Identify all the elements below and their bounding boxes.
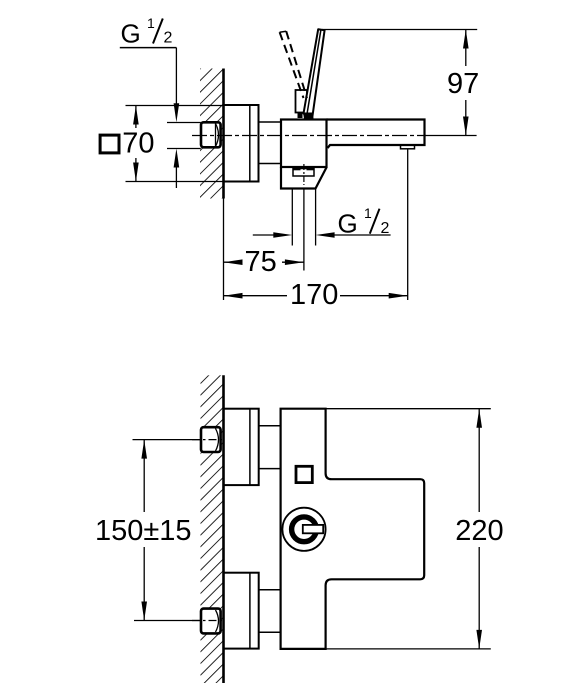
nipple dim left shaft (253, 234, 280, 236)
logo crossbar (303, 525, 323, 533)
dimension 70: bottom extension line (126, 181, 224, 183)
svg-text:1: 1 (364, 205, 372, 221)
label G1/2 middle (338, 205, 390, 239)
dimension 170: arrow left (224, 293, 243, 299)
nut chamfer line (215, 124, 217, 147)
label G1/2 top-left (121, 15, 173, 49)
svg-text:220: 220 (455, 515, 503, 547)
svg-text:170: 170 (290, 279, 338, 311)
flange inner edge line (249, 105, 251, 182)
lower nut centerline (192, 620, 225, 622)
small square detail on body (296, 466, 312, 482)
G1/2 leader line (328, 234, 391, 236)
svg-text:97: 97 (447, 68, 479, 100)
upper pipe bottom line (259, 468, 281, 470)
nipple centerline (303, 164, 305, 185)
dimension 75: arrow right (285, 259, 304, 265)
outlet centerline extension down (303, 189, 305, 271)
dimension 75: arrow left (224, 259, 243, 265)
mixer body (side view) (281, 120, 327, 168)
svg-text:G: G (121, 19, 141, 49)
dimension 70: square symbol (100, 135, 119, 153)
dimension 220: upper dim segment (478, 409, 480, 512)
nipple left extension line (291, 189, 293, 246)
lever handle dashed alternate position left edge (280, 32, 304, 98)
dimension 97: arrow down (463, 117, 469, 136)
lever handle post (296, 90, 308, 113)
upper pipe top line (259, 425, 281, 427)
dimension 150±15: top extension line (133, 439, 202, 441)
svg-text:2: 2 (381, 220, 390, 237)
aerator (401, 145, 415, 149)
dimension 70: top extension line (126, 105, 224, 107)
wall extension line down to 170 dimension (223, 199, 225, 301)
lower pipe bottom line (259, 631, 281, 633)
thread top extension line (167, 122, 201, 124)
dimension 220: lower dim segment (478, 547, 480, 649)
wall hatching top view (200, 69, 223, 199)
connection pipe bottom line (259, 163, 282, 165)
dimension 150±15: upper dim segment (143, 440, 145, 512)
connection pipe top line (259, 121, 282, 123)
svg-text:1: 1 (147, 15, 155, 31)
logo outer circle (282, 508, 325, 551)
dimension 70: arrow down (133, 163, 139, 182)
dimension 97: arrow up (463, 30, 469, 49)
dimension 75: right dim segment (282, 261, 304, 263)
dimension 70: arrow up (133, 106, 139, 125)
dimension 97: top extension line at lever tip (322, 29, 477, 31)
svg-text:G: G (338, 209, 358, 239)
thread lower arrow up (174, 149, 180, 168)
dimension 150±15: arrow up (141, 440, 147, 459)
upper flange inner line (249, 409, 251, 485)
dimension 150±15: arrow down (141, 602, 147, 621)
logo thick ring (292, 517, 317, 542)
svg-text:75: 75 (245, 246, 277, 278)
dimension 220: bottom extension line (326, 648, 491, 650)
dimension 150±15: bottom extension line (134, 620, 201, 622)
upper union nut (201, 427, 221, 452)
lever foot base (303, 113, 314, 119)
lever handle solid position (304, 29, 325, 118)
dimension 70: lower dim line segment (135, 158, 137, 182)
outlet nipple G1/2 (293, 169, 314, 177)
dimension 170: right dim segment (340, 295, 408, 297)
dimension 97: upper dim line segment (465, 30, 467, 67)
dimension 150±15: lower dim segment (143, 547, 145, 621)
lower escutcheon flange (224, 573, 259, 649)
leader vertical line (175, 48, 177, 110)
upper nut chamfer arc (216, 429, 219, 452)
dimension 75: left dim segment (224, 261, 243, 263)
svg-text:2: 2 (164, 30, 173, 47)
dimension 220: arrow up (476, 409, 482, 428)
svg-text:70: 70 (122, 128, 154, 160)
nipple right extension line (315, 190, 317, 246)
lower nut chamfer arc (216, 610, 219, 632)
thread bottom extension line (167, 148, 201, 150)
mixer body outline (front view) (281, 409, 425, 649)
dimension 170: left dim segment (224, 295, 288, 297)
thread lower arrow shaft (175, 155, 177, 188)
upper nut centerline (192, 439, 225, 441)
dimension 220: top extension line (326, 408, 491, 410)
nipple dim arrow pointing right (273, 232, 292, 238)
nipple thread marks (294, 167, 301, 170)
dimension 97: lower dim line segment (465, 100, 467, 136)
escutcheon flange (side view) (224, 105, 259, 182)
lever inner edge line (307, 31, 321, 115)
svg-text:150±15: 150±15 (95, 515, 192, 547)
upper escutcheon flange (224, 409, 259, 485)
shower outlet block (281, 167, 327, 189)
spout (327, 120, 425, 149)
dashed lever top cap (280, 31, 287, 32)
dimension 220: arrow down (476, 630, 482, 649)
wall face line bottom view (222, 375, 225, 683)
nipple dim arrow pointing left (G1/2 leader) (316, 232, 335, 238)
lever foot left (298, 113, 303, 118)
nut chamfer arc (216, 124, 219, 147)
leader underline for G1/2 top-left (120, 47, 177, 49)
lower flange inner line (249, 573, 251, 649)
centerline main axis (192, 135, 426, 137)
dimension 170: arrow right (389, 293, 408, 299)
dimension 70: upper dim line segment (135, 106, 137, 129)
lower pipe top line (259, 589, 281, 591)
wall face line top view (222, 69, 225, 199)
lower union nut (201, 609, 221, 634)
spout end extension line down (407, 149, 409, 301)
leader arrowhead down (174, 103, 180, 122)
lever handle dashed alternate position right edge (286, 31, 307, 98)
G1/2 union nut (side view) (201, 122, 221, 147)
wall hatching bottom view (201, 375, 224, 683)
